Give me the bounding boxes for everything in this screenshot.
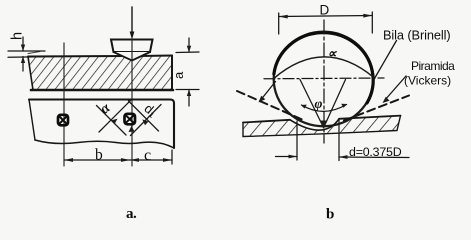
left pyramid dashed line <box>237 91 302 120</box>
svg-text:d=0.375D: d=0.375D <box>349 145 402 159</box>
centerline through indenter <box>131 40 133 167</box>
indenter <box>111 40 153 61</box>
left centerline <box>63 43 65 166</box>
svg-text:h: h <box>10 32 26 40</box>
dimension D <box>279 2 373 34</box>
svg-text:b: b <box>95 147 103 164</box>
plan view outline with wavy break edge <box>29 100 174 149</box>
inner sphere arc <box>274 57 374 79</box>
svg-text:a.: a. <box>126 206 137 222</box>
right pyramid dashed line <box>344 96 409 121</box>
specimen strip hatched <box>243 116 401 137</box>
svg-text:Bila (Brinell): Bila (Brinell) <box>383 28 451 43</box>
diamond frame around indentation 2 <box>97 101 162 136</box>
dimension h <box>8 32 45 71</box>
svg-text:b: b <box>326 207 334 223</box>
dimension d=0.375D <box>276 120 410 161</box>
dimension b and c <box>64 147 172 165</box>
svg-text:∝: ∝ <box>328 47 338 61</box>
horizontal dash-dot centerline <box>264 77 384 80</box>
svg-text:α: α <box>97 99 114 117</box>
specimen bar cross-section hatched <box>28 56 173 91</box>
apex arrowhead <box>320 121 328 128</box>
indentation mark 1 (square with X) <box>58 115 68 126</box>
vertical centerline <box>323 20 325 143</box>
force arrow <box>130 7 135 40</box>
cone chord lines <box>300 80 346 128</box>
svg-text:(Vickers): (Vickers) <box>404 74 451 88</box>
diamond arrowheads <box>111 119 149 132</box>
Bila leader line <box>375 41 397 79</box>
left leader arrow to dashed line <box>259 82 276 103</box>
Piramida leader arrow <box>383 76 407 103</box>
svg-text:D: D <box>320 2 330 17</box>
surface lip line (h reference) <box>28 52 40 54</box>
indentation mark 2 (square with X) <box>125 114 136 125</box>
dimension a <box>171 38 199 106</box>
phi angle arc with arrows <box>301 104 347 112</box>
ball circle <box>274 32 374 127</box>
svg-text:a: a <box>171 71 186 79</box>
svg-text:Piramida: Piramida <box>411 59 455 73</box>
svg-text:φ: φ <box>315 96 323 111</box>
svg-text:c: c <box>144 147 151 164</box>
